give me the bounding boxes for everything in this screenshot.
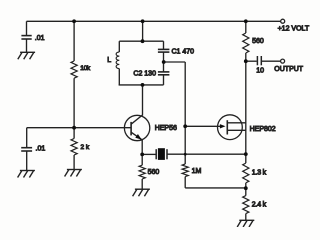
svg-text:HEP802: HEP802 — [250, 126, 276, 133]
svg-text:560: 560 — [148, 169, 160, 176]
svg-text:OUTPUT: OUTPUT — [274, 66, 304, 73]
svg-text:10k: 10k — [80, 65, 91, 72]
svg-text:+12 VOLT: +12 VOLT — [278, 26, 310, 33]
svg-text:L: L — [107, 57, 111, 64]
svg-text:C1 470: C1 470 — [172, 49, 195, 56]
svg-text:.01: .01 — [36, 146, 46, 153]
svg-text:HEP56: HEP56 — [155, 125, 177, 132]
svg-text:10: 10 — [256, 68, 264, 75]
svg-text:2 k: 2 k — [81, 144, 90, 151]
svg-text:C2 130: C2 130 — [133, 70, 156, 77]
svg-text:2.4 k: 2.4 k — [252, 202, 267, 209]
svg-text:1.3 k: 1.3 k — [252, 169, 267, 176]
svg-text:560: 560 — [252, 38, 264, 45]
svg-text:1M: 1M — [192, 168, 202, 175]
svg-text:.01: .01 — [35, 35, 45, 42]
